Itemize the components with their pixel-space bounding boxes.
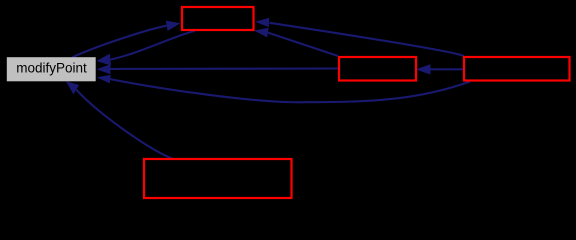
node: middle red box (caller, truncated) (339, 57, 416, 81)
node: bottom red box (caller, truncated, two-line) (144, 159, 292, 198)
edge: right box -> top box (270, 23, 465, 56)
arrowhead into top box right edge (upper) (255, 18, 269, 27)
node: top red box (caller, truncated) (182, 7, 254, 30)
edge: right box -> modifyPoint (long bottom curve) (110, 79, 470, 102)
node: modifyPoint (current node, gray) (7, 57, 96, 81)
edge: top box -> modifyPoint (110, 31, 195, 60)
arrowhead into modifyPoint bottom edge (66, 81, 79, 94)
node: right red box (caller, truncated) (464, 57, 570, 81)
edge: bottom box -> modifyPoint (76, 90, 172, 159)
edge: right box -> middle box (431, 68, 465, 70)
arrowhead into modifyPoint right edge (middle) (97, 64, 111, 74)
arrowhead into top box right edge (lower) (254, 28, 269, 38)
arrowhead into modifyPoint right edge (upper) (97, 54, 112, 66)
svg-text:modifyPoint: modifyPoint (16, 60, 87, 75)
edge: middle box -> modifyPoint (111, 67, 339, 70)
edge: modifyPoint -> top box (72, 26, 167, 58)
edge: middle box -> top box (268, 33, 338, 56)
arrowhead into modifyPoint right edge (lower) (97, 75, 111, 84)
arrowhead into top box left edge (166, 21, 181, 31)
arrowhead into middle box right edge (416, 64, 431, 74)
